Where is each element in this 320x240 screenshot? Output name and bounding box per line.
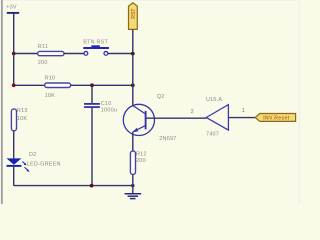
wire C10 down to bottom rail: [91, 108, 93, 186]
ground: [125, 186, 142, 199]
wire R10 to node E: [71, 84, 133, 86]
resistor R12: [130, 151, 146, 174]
node G junction: [131, 184, 134, 187]
svg-text:LED-GREEN: LED-GREEN: [27, 161, 61, 167]
wire R12 down to ground: [132, 174, 134, 185]
port flag RST: [129, 3, 138, 30]
transistor Q2: [123, 94, 176, 142]
svg-text:R13: R13: [17, 108, 28, 114]
node F junction: [90, 184, 94, 188]
wire base of Q2 to U16.A: [146, 117, 206, 119]
LED D2: [7, 152, 61, 172]
wire R13 to LED D2: [13, 131, 15, 159]
wire node D down to C10: [91, 85, 93, 103]
power +3V: [6, 5, 19, 13]
svg-text:Q2: Q2: [157, 94, 165, 100]
wire node C to R10: [14, 84, 45, 86]
svg-text:INV.Reset: INV.Reset: [263, 116, 290, 122]
svg-text:1: 1: [242, 108, 245, 114]
svg-text:U16.A: U16.A: [206, 97, 222, 103]
svg-text:+3V: +3V: [6, 5, 17, 11]
svg-text:C10: C10: [101, 101, 112, 107]
bottom rail wire: [14, 185, 133, 187]
svg-text:2N697: 2N697: [159, 136, 176, 142]
svg-text:200: 200: [136, 158, 146, 164]
svg-text:R10: R10: [45, 76, 56, 82]
wire from +3V down to node A: [13, 14, 15, 54]
svg-text:10K: 10K: [45, 93, 56, 99]
svg-text:R12: R12: [136, 151, 147, 157]
node B junction: [131, 52, 135, 56]
svg-text:R11: R11: [38, 44, 48, 50]
wire RST flag down to node B: [132, 29, 134, 53]
pin number 1: [242, 108, 245, 114]
node C junction: [12, 83, 16, 87]
node E junction: [131, 83, 135, 87]
resistor R11: [38, 44, 64, 66]
pin number 2: [191, 109, 194, 115]
resistor R10: [45, 76, 71, 99]
port flag INV.Reset: [255, 114, 295, 122]
node D junction: [90, 83, 94, 87]
wire node A down to node C: [13, 54, 15, 86]
wire node B down to collector: [132, 54, 134, 106]
button BTN RST: [83, 39, 109, 55]
wire R11 to button: [64, 53, 84, 55]
svg-text:2: 2: [191, 109, 194, 115]
wire emitter down to R12: [132, 132, 134, 152]
svg-text:200: 200: [38, 60, 48, 66]
svg-text:10K: 10K: [17, 116, 28, 122]
svg-text:1000u: 1000u: [101, 108, 117, 114]
svg-text:7407: 7407: [206, 132, 219, 138]
wire node A to R11: [14, 53, 38, 55]
node A junction: [12, 52, 16, 56]
svg-text:BTN RST: BTN RST: [83, 39, 108, 45]
op-amp U16.A buffer 7407: [206, 97, 228, 138]
wire U16.A to INV.Reset flag: [228, 117, 255, 119]
capacitor C10: [84, 101, 117, 113]
resistor R13: [11, 108, 27, 131]
wire D2 down to bottom rail: [13, 167, 15, 186]
wire button to node B: [108, 53, 133, 55]
svg-text:D2: D2: [29, 152, 36, 158]
svg-text:RST: RST: [131, 9, 137, 19]
